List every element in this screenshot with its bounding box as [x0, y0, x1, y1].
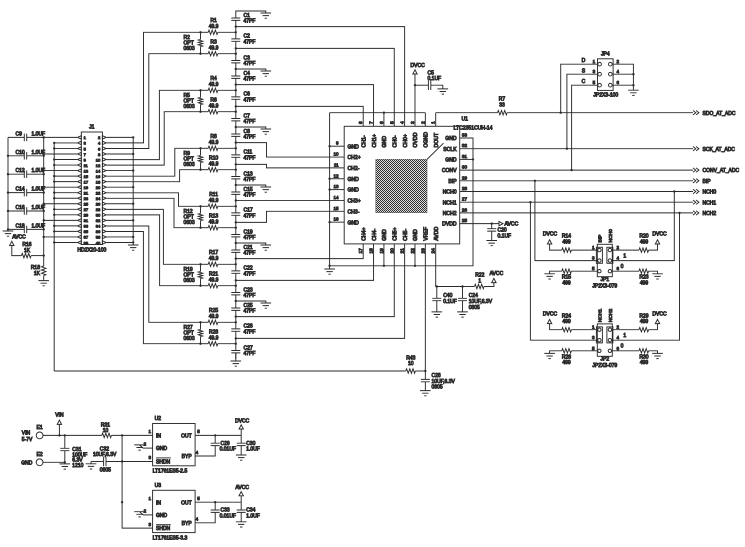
svg-text:7: 7 [369, 121, 375, 124]
J1 pin 7 [78, 152, 82, 155]
node C31 [64, 434, 66, 436]
svg-text:24: 24 [96, 196, 101, 201]
svg-text:1.0UF: 1.0UF [246, 447, 260, 453]
wire cap bus segment [235, 41, 237, 60]
node gnd ch2 [235, 126, 237, 128]
node bus A [43, 169, 45, 171]
svg-text:29: 29 [84, 213, 89, 218]
svg-text:LTC2351CUH-14: LTC2351CUH-14 [454, 126, 493, 132]
svg-text:E1: E1 [37, 425, 43, 431]
wire E2 to gnd [43, 461, 65, 463]
capacitor C19 [231, 235, 240, 237]
svg-text:499: 499 [640, 281, 649, 287]
node SDO to JP4 [560, 112, 562, 114]
J1 pin 3 [78, 141, 82, 144]
wire R18 to ground [43, 276, 45, 281]
node AVDD C24 [461, 285, 463, 287]
svg-text:JP2X3-079: JP2X3-079 [592, 363, 617, 369]
svg-text:2: 2 [617, 245, 620, 250]
wire JP2 pin3 net [530, 202, 597, 340]
resistor R4 [208, 88, 218, 92]
wire E1 to R31 [43, 434, 102, 436]
node ch3- opt [199, 227, 201, 229]
svg-text:OUT: OUT [181, 500, 192, 506]
svg-text:0.01UF: 0.01UF [220, 447, 236, 453]
svg-text:1: 1 [431, 121, 437, 124]
svg-text:47PF: 47PF [244, 40, 256, 46]
svg-text:26: 26 [96, 202, 101, 207]
node ch5+ opt [199, 321, 201, 323]
node ch2+ opt [199, 147, 201, 149]
ground [261, 71, 272, 76]
svg-text:47PF: 47PF [244, 77, 256, 83]
wire C20 to ground [491, 231, 493, 240]
node bus B [53, 197, 55, 199]
svg-text:GND: GND [382, 136, 388, 148]
wire J1 pin25 to bus A [44, 203, 77, 205]
ground [128, 245, 139, 250]
J1 pin 29 [78, 213, 82, 216]
svg-text:0.1UF: 0.1UF [498, 233, 512, 239]
wire ch5+ from J1 [107, 226, 201, 322]
svg-text:0.01UF: 0.01UF [220, 513, 236, 519]
svg-text:C18: C18 [16, 223, 25, 229]
wire ch0+ to bus [201, 31, 209, 33]
svg-text:5: 5 [389, 121, 395, 124]
svg-text:C9: C9 [16, 131, 23, 137]
svg-text:BIP: BIP [703, 179, 712, 185]
svg-text:16: 16 [96, 174, 101, 179]
node VIN branch [121, 434, 123, 436]
op-amp U1 LTC2351CUH-14 body [344, 126, 460, 244]
svg-text:0805: 0805 [100, 468, 111, 474]
node pin22 gnd [414, 265, 416, 267]
svg-text:20: 20 [96, 185, 101, 190]
svg-text:15: 15 [333, 206, 339, 211]
wire J1 pin27 to bus B [54, 208, 77, 210]
resistor R23 to ground [612, 270, 639, 272]
svg-text:BYP: BYP [182, 454, 193, 460]
regulator U2 LT1761ES5-2.5 body [153, 424, 196, 466]
svg-text:47PF: 47PF [244, 61, 256, 67]
wire ch4- to bus [201, 285, 209, 287]
node bus B [53, 142, 55, 144]
node ch3- bus [235, 227, 237, 229]
wire gnd branch ch5 [236, 301, 266, 303]
JP1 shunt left [596, 247, 602, 263]
node cap bus A [43, 136, 45, 138]
wire C34 to ground [240, 512, 242, 521]
svg-text:DVCC: DVCC [410, 63, 425, 69]
capacitor C32 [106, 461, 122, 463]
svg-text:4: 4 [400, 121, 406, 124]
svg-text:0603: 0603 [184, 278, 195, 284]
node left bus gnd [328, 265, 330, 267]
node bus B [53, 164, 55, 166]
svg-text:DVDD: DVDD [442, 222, 457, 228]
wire J1 pin17 to bus B [54, 181, 77, 183]
svg-text:1: 1 [149, 496, 152, 501]
wire left gnd bus [329, 113, 331, 266]
node gnd ch5 [235, 300, 237, 302]
wire U1 pin19 GND stub [383, 244, 385, 266]
regulator U3 LT1761ES5-3.3 body [153, 490, 196, 532]
svg-text:LT1761ES5-2.5: LT1761ES5-2.5 [153, 469, 188, 475]
svg-text:U3: U3 [155, 483, 162, 489]
svg-text:0805: 0805 [469, 305, 480, 311]
node bus B [53, 225, 55, 227]
resistor R15 to ground [571, 270, 597, 272]
capacitor C3 [231, 61, 240, 63]
wire J1 pin31 to bus A [44, 219, 77, 221]
wire U1 pin12 GND stub [330, 178, 345, 180]
wire CH3- to U1 pin15 [236, 211, 344, 222]
svg-text:1: 1 [593, 59, 596, 64]
resistor R8 [208, 146, 218, 150]
capacitor C5 [428, 80, 430, 90]
connector JP1 body [597, 244, 612, 276]
J1 pin 30 [102, 213, 106, 216]
svg-text:GND: GND [445, 158, 457, 164]
J1 pin 11 [78, 163, 82, 166]
svg-text:30: 30 [96, 213, 101, 218]
svg-text:6: 6 [379, 121, 385, 124]
capacitor C34 [240, 502, 242, 510]
ground [60, 464, 71, 469]
svg-text:25: 25 [84, 202, 89, 207]
J1 pin 23 [78, 197, 82, 200]
wire cap bus segment [235, 215, 237, 234]
J1 pin 18 [102, 180, 106, 183]
svg-text:6: 6 [617, 266, 620, 271]
node ch4- bus [235, 285, 237, 287]
wire CH5- to U1 pin21 [236, 244, 405, 339]
ground [261, 187, 272, 192]
wire C1 top to ground [236, 11, 266, 18]
J1 pin 10 [102, 158, 106, 161]
JP2 pin 5 [598, 349, 601, 352]
ground [3, 231, 14, 236]
U1 pin1 indicator line [427, 143, 444, 159]
svg-text:38: 38 [96, 235, 101, 240]
svg-text:49.9: 49.9 [209, 24, 219, 30]
svg-text:1: 1 [478, 278, 481, 284]
svg-text:NCH1: NCH1 [703, 200, 717, 206]
capacitor C25 [231, 308, 240, 310]
wire cap bus segment [235, 99, 237, 118]
J1 pin 13 [78, 169, 82, 172]
J1 pin 16 [102, 174, 106, 177]
svg-text:10: 10 [333, 152, 339, 157]
JP1 pin 1 [598, 248, 601, 251]
wire left gnd bus [7, 137, 9, 229]
wire J1 pin39 to bus B [54, 241, 77, 243]
svg-text:499: 499 [640, 360, 649, 366]
svg-text:3: 3 [410, 121, 416, 124]
svg-text:0: 0 [621, 344, 624, 350]
svg-text:23: 23 [84, 196, 89, 201]
node ch3+ opt [199, 205, 201, 207]
node ch1- opt [199, 111, 201, 113]
ground [236, 522, 247, 527]
svg-text:CH5-: CH5- [403, 228, 409, 240]
wire NCH2 line [460, 212, 693, 214]
capacitor C23 [231, 293, 240, 295]
wire J1 pin35 to bus B [54, 230, 77, 232]
capacitor C21 [231, 250, 240, 252]
svg-text:17: 17 [358, 248, 364, 254]
wire J1 pin26 to gnd bus [107, 203, 134, 205]
node JP4 pin4 [632, 73, 634, 75]
svg-text:18: 18 [369, 248, 375, 254]
capacitor C31 [64, 435, 66, 448]
svg-text:10: 10 [408, 361, 414, 367]
svg-text:U2: U2 [155, 416, 162, 422]
wire ch3+ from J1 [107, 193, 201, 207]
wire R31 to U2 IN [111, 434, 152, 436]
capacitor C15 [231, 192, 240, 194]
wire cap bus segment [235, 310, 237, 329]
svg-text:JP2X3-079: JP2X3-079 [592, 284, 617, 290]
svg-text:33: 33 [84, 224, 89, 229]
wire ch1- to bus [201, 111, 209, 113]
node cap gnd bus [7, 191, 9, 193]
node OVDD [414, 84, 416, 86]
node ch0+ bus [235, 31, 237, 33]
node ch3+ bus [235, 205, 237, 207]
svg-text:15: 15 [84, 174, 89, 179]
capacitor C17 [231, 213, 240, 215]
svg-text:11: 11 [334, 162, 339, 167]
svg-text:GND: GND [348, 177, 360, 183]
wire cap bus segment [235, 20, 237, 39]
svg-text:31: 31 [84, 218, 89, 223]
capacitor C20 [487, 229, 496, 231]
svg-text:DVCC: DVCC [652, 232, 667, 238]
wire J1 pin5 to bus B [54, 147, 77, 149]
wire ch2- from J1 [107, 170, 201, 182]
svg-text:47PF: 47PF [244, 330, 256, 336]
node ch4- opt [199, 285, 201, 287]
J1 pin 37 [78, 235, 82, 238]
svg-text:OGND: OGND [424, 132, 430, 148]
wire VREF bus line [54, 370, 406, 372]
capacitor C13 [231, 177, 240, 179]
wire J1 pin1 to bus A [44, 136, 77, 138]
node CH4+ [235, 257, 237, 259]
svg-text:JP2X3-100: JP2X3-100 [593, 93, 618, 99]
node cap gnd bus [7, 155, 9, 157]
wire J1 pin19 to bus A [44, 186, 77, 188]
J1 pin 31 [78, 219, 82, 222]
J1 pin 28 [102, 208, 106, 211]
svg-text:CH2-: CH2- [348, 166, 360, 172]
wire GND line above U1 [330, 112, 426, 114]
capacitor C30 [240, 435, 242, 443]
U1 exposed pad [376, 159, 427, 212]
resistor R17 [208, 262, 218, 266]
J1 pin 4 [102, 141, 106, 144]
svg-text:DVCC: DVCC [235, 418, 250, 424]
node cap gnd bus [7, 228, 9, 230]
node ch1+ bus [235, 89, 237, 91]
capacitor C9 [8, 136, 24, 138]
svg-text:32: 32 [96, 218, 101, 223]
wire U1 pin3 OVDD stub [414, 85, 416, 126]
wire JP1 pin4 net [612, 192, 674, 261]
svg-text:1: 1 [592, 325, 595, 330]
svg-text:47PF: 47PF [244, 177, 256, 183]
svg-text:VIN: VIN [22, 431, 31, 437]
wire J1 vref bus B [53, 143, 55, 371]
node ch0+ opt [199, 31, 201, 33]
node U2 SHDN [121, 460, 123, 462]
wire C40 to ground [436, 301, 438, 312]
resistor R9 OPT [200, 148, 202, 155]
wire U1 pin16 GND stub [330, 221, 345, 223]
svg-text:CH3-: CH3- [348, 209, 360, 215]
svg-text:27: 27 [462, 197, 468, 202]
J1 pin 17 [78, 180, 82, 183]
J1 pin 34 [102, 224, 106, 227]
svg-text:47PF: 47PF [244, 272, 256, 278]
J1 pin 36 [102, 230, 106, 233]
svg-text:NCH1: NCH1 [598, 309, 604, 323]
wire JP4 pin5 to CONV [572, 85, 598, 170]
node CH3- [235, 221, 237, 223]
connector J1 body [81, 132, 102, 245]
svg-text:GND: GND [156, 513, 168, 519]
svg-text:CH0+: CH0+ [403, 134, 409, 147]
JP4 pin 4 [609, 72, 613, 76]
node pin19 gnd [383, 265, 385, 267]
node U2 OUT [214, 434, 216, 436]
wire JP4 pin1 to SDO [561, 64, 598, 113]
svg-text:0603: 0603 [184, 46, 195, 52]
capacitor C22 [231, 271, 240, 273]
ground [261, 13, 272, 18]
wire cap bus segment [235, 301, 237, 308]
wire gnd branch ch4 [236, 243, 266, 245]
wire J1 even-pin gnd bus [132, 137, 134, 245]
net SCK_AT_ADC [693, 147, 699, 151]
resistor R20 to DVCC [612, 249, 639, 251]
node pin16 gnd [328, 221, 330, 223]
ground [457, 312, 468, 317]
resistor R30 to ground [612, 350, 639, 352]
svg-text:39: 39 [84, 240, 89, 245]
svg-text:499: 499 [640, 239, 649, 245]
wire cap bus segment [235, 331, 237, 350]
wire ch4+ from J1 [107, 209, 201, 264]
wire CH5+ to U1 pin20 [236, 244, 394, 317]
svg-text:12: 12 [96, 163, 101, 168]
wire cap bus segment [235, 243, 237, 250]
wire SDO_AT_ADC line [507, 112, 693, 114]
J1 pin 27 [78, 208, 82, 211]
svg-text:1: 1 [623, 253, 626, 259]
wire ch3- to bus [201, 227, 209, 229]
svg-text:19: 19 [84, 185, 89, 190]
terminal E2 [36, 459, 43, 466]
svg-text:NCH2: NCH2 [703, 211, 717, 217]
wire U1 pin13 GND stub [330, 189, 345, 191]
wire J1 bias bus A [43, 137, 45, 255]
wire ch5+ to bus [201, 321, 209, 323]
node J1 row10 gnd [132, 186, 134, 188]
svg-text:JP4: JP4 [601, 52, 610, 58]
svg-text:49.9: 49.9 [209, 335, 219, 341]
node ch5- bus [235, 343, 237, 345]
svg-text:DVCC: DVCC [543, 232, 558, 238]
wire JP1 pin3 net [535, 181, 597, 261]
wire CH0- to U1 pin5 [236, 48, 394, 126]
node bus A [43, 203, 45, 205]
JP4 pin 2 [609, 62, 613, 66]
capacitor C27 [231, 351, 240, 353]
net NCH0 [693, 189, 699, 193]
ground [544, 274, 555, 279]
svg-text:E2: E2 [37, 452, 43, 458]
node gnd ch4 [235, 242, 237, 244]
svg-text:18: 18 [96, 179, 101, 184]
svg-text:10: 10 [103, 428, 109, 434]
terminal E1 [36, 432, 43, 439]
svg-text:5: 5 [592, 346, 595, 351]
svg-text:CONV_AT_ADC: CONV_AT_ADC [703, 168, 740, 174]
svg-text:1: 1 [149, 429, 152, 434]
wire CH1- to U1 pin8 [236, 106, 363, 126]
node CH2+ [235, 141, 237, 143]
svg-text:SDO_AT_ADC: SDO_AT_ADC [703, 111, 736, 117]
wire ch1- from J1 [107, 112, 201, 165]
svg-text:5: 5 [197, 496, 200, 501]
net BIP [693, 179, 699, 183]
svg-text:GND: GND [382, 229, 388, 241]
ground [652, 353, 663, 358]
node J1 row4 gnd [132, 153, 134, 155]
J1 pin 8 [102, 152, 106, 155]
ground [324, 269, 335, 274]
node ch0- opt [199, 53, 201, 55]
wire DVDD to AVCC [460, 223, 499, 225]
wire CH4- to U1 pin18 [236, 244, 374, 281]
capacitor C40 [436, 287, 438, 299]
svg-text:1: 1 [623, 333, 626, 339]
wire J1 pin7 to bus A [44, 153, 77, 155]
node pin31 gnd [472, 158, 474, 160]
capacitor C33 [214, 502, 216, 510]
svg-text:3: 3 [592, 335, 595, 340]
ground [231, 361, 242, 366]
svg-text:0805: 0805 [432, 385, 443, 391]
wire OVDD to C5 [415, 84, 428, 86]
wire GND line below U1 [330, 138, 473, 266]
svg-text:13: 13 [333, 184, 339, 189]
J1 pin 35 [78, 230, 82, 233]
ground [652, 274, 663, 279]
wire VIN vertical bus [122, 435, 153, 528]
capacitor C2 [231, 39, 240, 41]
wire C31 to gnd [64, 451, 66, 463]
node J1 row13 gnd [132, 203, 134, 205]
node cap bus A [43, 173, 45, 175]
J1 pin 6 [102, 147, 106, 150]
svg-text:8: 8 [358, 121, 364, 124]
svg-text:0.1UF: 0.1UF [428, 76, 442, 82]
svg-text:VIN: VIN [55, 413, 64, 419]
node cap bus A [43, 228, 45, 230]
